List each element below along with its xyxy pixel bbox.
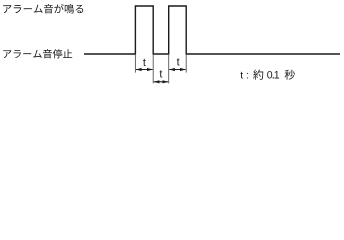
svg-text::: : xyxy=(246,70,249,82)
svg-text:t: t xyxy=(240,70,243,82)
svg-text:0: 0 xyxy=(267,70,273,82)
svg-text:t: t xyxy=(177,57,180,69)
svg-text:1: 1 xyxy=(274,70,280,82)
svg-text:t: t xyxy=(143,57,146,69)
svg-text:t: t xyxy=(159,68,162,80)
